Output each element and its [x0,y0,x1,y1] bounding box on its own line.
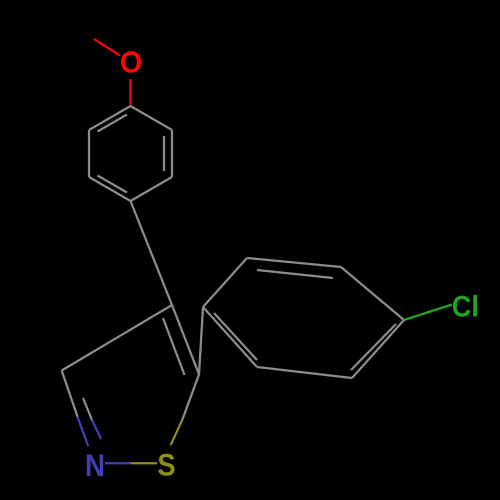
ring2 D3-D4 [341,267,404,320]
ring1 B4-B5 inner [98,176,128,193]
bond ring1 to C4 [131,201,173,305]
C5-ring2 bond [199,307,203,374]
ring2 D2-D3 [247,258,341,267]
ring2 D6-D1 [203,307,257,367]
ring1 B2-B3 inner [163,136,165,171]
ring1 B4-B5 [89,177,131,201]
ring1 B6-B1 [89,106,131,130]
C3=N inner gray [83,398,92,420]
C4=C5 bond [172,305,199,374]
C3=N inner blue [92,420,101,439]
N-S blue half [105,462,131,464]
C4=C5 inner [163,318,185,375]
Cl bond [404,305,452,321]
ring1 B2-B3 [171,130,173,177]
C3=N blue half [78,417,89,446]
ring1 B6-B1 inner [98,115,128,132]
ring1 B1-B2 [131,106,173,130]
ring2 D6-D1 inner [214,313,257,360]
ring1 B3-B4 [131,177,173,201]
ring2 D4-D5 [352,320,404,378]
ring2 D4-D5 inner [351,324,396,370]
svg-text:S: S [157,448,175,483]
svg-text:Cl: Cl [452,289,479,322]
ring2 D1-D2 [203,258,247,307]
svg-text:O: O [120,46,142,80]
ring2 D5-D6 [257,367,352,378]
ring1 B5-B6 [88,130,90,177]
C3=N gray half [62,371,78,418]
ring2 D2-D3 inner [257,270,333,278]
O-ring bond [129,79,131,106]
methyl-O bond [94,39,120,56]
S-C5 gray half [183,374,199,418]
C3-C4 bond [62,305,172,371]
svg-text:N: N [85,448,105,483]
S-C5 olive half [171,419,183,445]
N-S olive half [131,462,158,464]
